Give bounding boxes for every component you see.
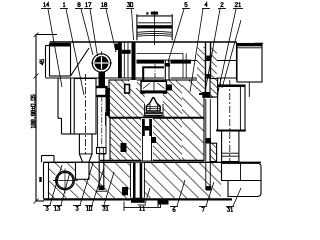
right screw in bottom plate [205, 99, 211, 191]
hatch strips around bolt [197, 47, 205, 93]
callout 2 top [221, 3, 223, 7]
die block corner band left [100, 152, 106, 155]
dim 45 text [40, 59, 44, 64]
top number underlines [41, 8, 243, 10]
bottom leader 3 [50, 165, 62, 205]
top leader 17 [90, 9, 98, 56]
parting line [109, 117, 204, 119]
left dimension 45 [34, 33, 58, 79]
clamp block upper left [50, 43, 71, 76]
callout 5 top [185, 3, 187, 7]
bottom plate [44, 162, 262, 199]
right guide bushing [216, 78, 246, 165]
callout 8 top [78, 3, 80, 7]
top leader 18 [106, 9, 116, 52]
bottom plate lip left [42, 156, 55, 163]
stop block on bottom plate [76, 162, 90, 179]
top leader 1 [66, 9, 84, 95]
callout 13 bottom [55, 206, 57, 210]
left guide pillar [74, 74, 96, 162]
callout 11 bottom [140, 206, 142, 210]
left screw in bottom plate [96, 148, 107, 192]
bottom numbers [46, 206, 233, 211]
bottom leader 31 [104, 172, 114, 205]
screw nut [91, 87, 107, 96]
bolt head below plate [158, 199, 169, 205]
bottom leader 7 [206, 182, 214, 206]
die left edge black bar [106, 88, 110, 116]
left dimension long [34, 76, 45, 204]
bottom leader 11 [145, 188, 150, 204]
small screw right of insert [164, 61, 171, 95]
top right block [237, 43, 263, 97]
guide bush circle bottom left [53, 169, 78, 194]
lower die block hatched [110, 118, 204, 160]
left mid plate profile [58, 79, 74, 135]
white notch in upper die [129, 80, 137, 88]
hatch notch left of bushing top [210, 79, 218, 98]
callout 6 bottom [173, 207, 175, 211]
bottom number underlines [43, 205, 234, 207]
top leader 8 [81, 9, 93, 55]
hatch diagonal in top plate [71, 48, 90, 76]
extra leader line [222, 20, 241, 88]
die left step line [105, 112, 107, 126]
small mark on dim line [39, 177, 41, 182]
callout 17 top [86, 3, 88, 7]
lower insert box [141, 81, 166, 93]
bottom leader 6 [177, 180, 185, 206]
small hatched rail left of bushing foot [210, 143, 217, 161]
screw hole walls below nut [98, 96, 106, 148]
ejector H white slot [141, 118, 153, 160]
callout 1 top [63, 3, 65, 7]
black blob in lower die left [121, 143, 127, 152]
top leader 30 [132, 9, 134, 40]
callout 18 top [102, 3, 104, 7]
central rod through bottom plate [130, 163, 145, 203]
callout 14 top [44, 3, 46, 7]
right foot block [222, 163, 262, 196]
bottom leader 13 [61, 172, 70, 205]
callout 7 bottom [202, 207, 204, 211]
bottom leader 31b [233, 188, 241, 206]
dim long text [31, 95, 35, 128]
die bottom thick line [100, 160, 204, 162]
callout 31 bottom [103, 206, 105, 210]
callout 4 top [205, 3, 207, 7]
callout 30 top [127, 3, 129, 7]
black square below H [151, 137, 156, 143]
top leader 14 [48, 9, 62, 87]
long bolt right side [202, 43, 213, 98]
callout 31 bottom [227, 207, 229, 211]
bottom plate hatch [49, 163, 221, 198]
top leader 4 [190, 9, 203, 92]
bottom leader 3b [80, 163, 93, 205]
black square right of insert [167, 85, 172, 91]
pillar hole wall [70, 79, 72, 135]
top leader 5 [168, 9, 184, 62]
sleeve pilot box [125, 85, 130, 94]
spring stack top [137, 11, 172, 45]
top leader 21 [217, 9, 236, 97]
step line right of band [137, 54, 187, 79]
black bar die right edge [199, 85, 203, 95]
upper die block hatched [109, 80, 204, 118]
thick band on die top [137, 60, 192, 64]
small dim bottom [124, 202, 161, 212]
callout 21 top [235, 3, 237, 7]
die insert thick rect [143, 64, 167, 86]
top leader 2 [204, 9, 220, 98]
screw circle U17 [91, 51, 112, 87]
top plate outline [46, 42, 238, 81]
callout 3 bottom [76, 206, 78, 210]
callout 10 bottom [87, 206, 89, 210]
sleeve left of center [115, 43, 136, 81]
callout 3 bottom [46, 206, 48, 210]
top numbers [44, 3, 241, 7]
bottom leader 10 [92, 168, 104, 205]
nut blob in bottom plate [122, 187, 128, 195]
workpiece hat [145, 93, 164, 116]
